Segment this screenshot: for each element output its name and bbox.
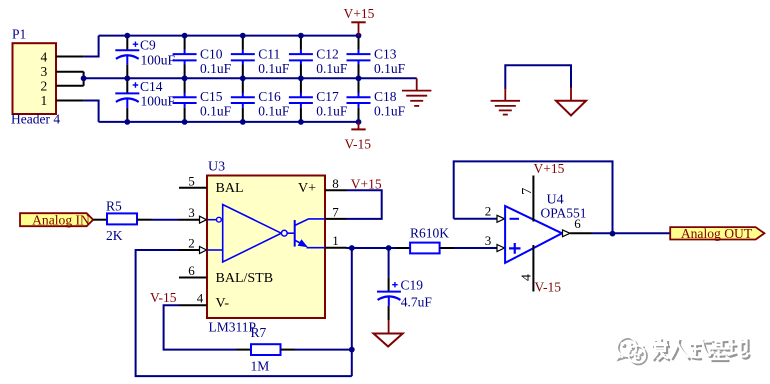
svg-text:V+: V+ [298,181,316,196]
ground (earth) symbol on middle rail [402,78,431,106]
svg-text:0.1uF: 0.1uF [374,61,406,76]
power port V-15 (bottom) [351,122,365,129]
wire R6 to U4 pin3 [454,247,497,249]
capacitor C16 (0.1uF) [231,78,255,122]
U4 minus input mark [510,218,520,220]
svg-text:0.1uF: 0.1uF [258,61,290,76]
capacitor C13 (0.1uF) [347,36,371,79]
P1 pin 3 lead [56,71,84,73]
connector P1 body [13,43,57,114]
node output junction 1 [349,245,355,251]
U3 transistor base line [287,232,295,234]
capacitor C10 (0.1uF) [173,36,197,79]
svg-text:5: 5 [188,173,195,188]
svg-text:2: 2 [188,236,195,251]
svg-text:2: 2 [41,78,48,93]
svg-text:U3: U3 [208,160,225,175]
wire pin8 to pin7 loop [347,190,382,219]
capacitor C14 (100uF electrolytic) [115,78,139,122]
node P1 junction [81,75,87,81]
svg-text:2K: 2K [106,228,123,243]
svg-text:Analog IN: Analog IN [32,212,90,227]
svg-text:V+15: V+15 [351,176,382,191]
watermark logo bubbles [617,337,648,365]
U3 pin 5 lead [179,187,207,189]
wire U3 pin3 internal stub [207,219,217,221]
svg-text:7: 7 [520,188,535,195]
svg-text:3: 3 [41,64,48,79]
svg-text:6: 6 [188,263,195,278]
power port V+15 (top) [351,22,365,35]
U4 pin 6 lead [570,232,592,234]
wire bottom rail V-15 [99,121,359,123]
port Analog IN [20,212,93,227]
wire output down through R7 node to bottom loop [351,248,353,376]
svg-text:C18: C18 [374,89,397,104]
capacitor C18 (0.1uF) [347,78,371,122]
U4 pin 3 input arrow [497,245,505,252]
svg-text:2: 2 [485,203,492,218]
svg-text:Analog OUT: Analog OUT [681,226,753,241]
wire pin1 to bottom rail [84,101,99,122]
svg-text:1: 1 [41,93,48,108]
svg-text:V-15: V-15 [535,280,562,295]
svg-text:C14: C14 [140,79,163,94]
svg-text:100uF: 100uF [141,93,176,108]
svg-text:C15: C15 [200,89,223,104]
svg-text:0.1uF: 0.1uF [258,104,290,119]
node R7 junction [349,347,355,353]
svg-text:6: 6 [574,216,581,231]
wire U3 pin2 internal stub [207,249,223,251]
svg-text:0.1uF: 0.1uF [374,104,406,119]
char 入 [673,340,691,360]
U3 comparator triangle [223,205,282,263]
char 嵌 [653,340,670,362]
svg-text:C19: C19 [401,277,424,292]
svg-text:0.1uF: 0.1uF [316,104,348,119]
U3 pin 6 lead [179,277,207,279]
capacitor C12 (0.1uF) [289,36,313,79]
svg-text:4: 4 [41,50,48,65]
wire bottom feedback loop [136,250,352,376]
svg-text:Header 4: Header 4 [11,112,60,127]
svg-text:0.1uF: 0.1uF [200,61,232,76]
capacitor C19 (4.7uF electrolytic) [377,248,401,320]
char 基 [711,340,731,362]
P1 pin 2 lead [56,85,84,87]
U3 pin 7 lead [325,218,347,220]
U3 pin 1 lead [325,247,347,249]
wire middle rail GND [84,77,417,79]
svg-text:V-: V- [216,296,230,311]
svg-text:100uF: 100uF [141,53,176,68]
wire ground tie [505,65,571,89]
node middle rail junctions [124,75,361,81]
U3 pin 3 input arrow [200,216,207,223]
svg-text:1: 1 [332,233,339,248]
P1 pin 4 lead [56,56,84,58]
wire pin3 to pin2 vertical [83,72,85,86]
svg-text:BAL: BAL [216,181,244,196]
U3 transistor collector [295,219,325,226]
svg-text:C16: C16 [258,89,281,104]
svg-text:1M: 1M [251,358,270,373]
svg-text:0.1uF: 0.1uF [200,104,232,119]
wire feedback to U4 pin2 [454,218,497,220]
svg-text:7: 7 [332,204,339,219]
svg-text:4: 4 [520,274,535,281]
U4 pin 4 lead (V-) [532,245,534,292]
op-amp U4 triangle [505,206,562,263]
U3 pin 4 lead [179,304,207,306]
char 地 [730,340,750,359]
U4 pin 6 output arrow [563,230,571,237]
capacitor C9 (100uF electrolytic) [115,36,139,79]
wire U3 pin1 output run to R6 [347,247,397,249]
U3 pin 8 lead [325,189,347,191]
wire R5 to U3 pin3 [152,219,180,221]
svg-text:R610K: R610K [410,225,449,240]
svg-text:3: 3 [188,205,195,220]
capacitor C15 (0.1uF) [173,78,197,122]
svg-text:C11: C11 [258,46,280,61]
U4 plus input mark [509,243,521,254]
resistor R5 [93,213,151,224]
U3 output bubble [281,230,287,236]
U3 pin 2 input arrow [200,247,207,254]
char 式 [691,340,712,359]
svg-text:R5: R5 [106,199,122,214]
svg-text:V+15: V+15 [534,161,565,176]
power ground (triangle) symbol right [556,87,586,116]
comparator U3 body [207,176,325,319]
svg-text:R7: R7 [251,325,267,340]
U3 transistor base bar [294,220,296,247]
svg-text:8: 8 [332,176,339,191]
capacitor C17 (0.1uF) [289,78,313,122]
resistor R6 [396,243,454,254]
ground (earth) symbol left [491,88,520,115]
svg-text:V-15: V-15 [345,136,372,151]
wire top rail V+15 [99,35,359,37]
U3 pin 3 lead [179,219,200,221]
svg-text:V-15: V-15 [150,290,177,305]
U4 pin 2 input arrow [497,215,505,222]
wire R7 to output node [295,349,352,351]
P1 pin 1 lead [56,100,84,102]
capacitor C11 (0.1uF) [231,36,255,79]
power ground (triangle) under C19 [374,320,403,347]
wire U3 pin4 down to R7 [164,305,237,349]
node top rail junctions [124,33,361,39]
node bottom rail junctions [124,119,361,125]
svg-text:4: 4 [197,291,204,306]
U4 pin 7 lead (V+) [532,176,534,222]
svg-text:V+15: V+15 [344,6,375,21]
node output junction 2 (C19 tap) [386,245,392,251]
wire U4 output to Analog OUT [592,232,671,234]
svg-text:P1: P1 [12,27,26,42]
svg-text:BAL/STB: BAL/STB [216,271,274,286]
svg-text:4.7uF: 4.7uF [401,294,433,309]
svg-text:3: 3 [485,233,492,248]
svg-text:C9: C9 [140,37,156,52]
svg-text:C10: C10 [200,46,223,61]
wire pin4 to top rail [84,36,99,57]
port Analog OUT [670,226,764,241]
U3 transistor emitter with arrow [295,239,325,247]
U3 pin 2 lead [179,249,200,251]
svg-text:C13: C13 [374,46,397,61]
node U4 output junction [610,231,616,237]
svg-text:C12: C12 [316,46,339,61]
U3 input bubble on pin 3 [217,217,222,222]
svg-text:C17: C17 [316,89,339,104]
svg-text:LM311P: LM311P [209,319,257,334]
svg-text:0.1uF: 0.1uF [316,61,348,76]
wire U4 feedback loop [454,161,613,233]
resistor R7 [237,344,296,355]
watermark text 嵌入式基地 (stroke approximation) [651,338,750,362]
